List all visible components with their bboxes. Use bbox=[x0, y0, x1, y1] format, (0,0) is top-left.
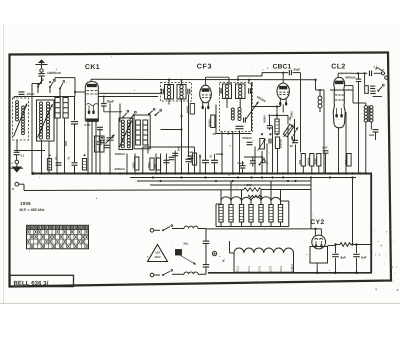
resistor lb6 bbox=[154, 158, 160, 170]
osc loop coil A bbox=[55, 98, 60, 119]
capacitor lb2 bbox=[68, 156, 78, 165]
tube CY2 bbox=[312, 235, 326, 249]
mains switch 2 bbox=[154, 269, 173, 276]
svg-text:250: 250 bbox=[298, 159, 302, 164]
svg-text:600cm: 600cm bbox=[346, 76, 356, 80]
IF2 bottom cap bbox=[236, 126, 244, 128]
svg-text:CF3: CF3 bbox=[268, 266, 272, 272]
capacitor det3 bbox=[250, 157, 256, 167]
svg-text:8uF: 8uF bbox=[341, 256, 347, 260]
dots det bbox=[261, 133, 279, 135]
svg-text:M.F. = 465 kHz: M.F. = 465 kHz bbox=[20, 208, 45, 212]
wire cbc net bbox=[253, 105, 289, 125]
IF2 winding B bbox=[236, 84, 246, 99]
capacitor CBC1 grid bbox=[289, 67, 300, 75]
wire T feed bbox=[24, 189, 244, 192]
CY2 box bbox=[310, 247, 328, 264]
switch band osc a bbox=[122, 110, 129, 118]
svg-text:CL2: CL2 bbox=[235, 266, 239, 272]
wire feed right bbox=[311, 178, 353, 245]
wire left top bbox=[14, 97, 75, 99]
trimmer arrow L1 bbox=[14, 104, 28, 137]
svg-text:30000: 30000 bbox=[264, 115, 267, 123]
wire under IF1 bbox=[161, 115, 183, 131]
wire res50000 bottom bbox=[213, 133, 216, 135]
wire det bottom bbox=[244, 156, 263, 158]
coil osc B bbox=[127, 120, 130, 148]
heater chain bbox=[216, 197, 289, 227]
potentiometer reglage bbox=[283, 116, 294, 143]
wire 25pF switch bbox=[104, 111, 122, 113]
wires vertical bbox=[17, 84, 376, 173]
label fuse bbox=[184, 242, 189, 246]
svg-text:CL2: CL2 bbox=[247, 266, 251, 272]
label CF3 bbox=[197, 64, 213, 71]
capacitor lb7 bbox=[172, 153, 178, 155]
lamp FL bbox=[212, 251, 216, 255]
svg-text:FL: FL bbox=[223, 258, 226, 262]
capacitor 0.1 a bbox=[199, 154, 209, 162]
svg-text:CL2: CL2 bbox=[331, 64, 345, 71]
svg-text:1936: 1936 bbox=[20, 201, 31, 206]
scan speckles bbox=[20, 56, 398, 291]
heater labels bbox=[235, 263, 293, 271]
capacitor lb8 bbox=[186, 159, 192, 161]
svg-text:CY2: CY2 bbox=[310, 219, 324, 226]
capacitor 0.1 b bbox=[210, 154, 219, 162]
wire grid feed bbox=[238, 73, 288, 80]
antenna terminal bbox=[40, 69, 43, 72]
bus third bbox=[137, 180, 311, 182]
heater label box bbox=[234, 253, 294, 272]
svg-text:1000cm: 1000cm bbox=[115, 152, 126, 156]
resistor speaker a bbox=[365, 86, 369, 94]
svg-text:3000: 3000 bbox=[314, 158, 318, 165]
resistor lb2 bbox=[82, 154, 86, 170]
terminal T bbox=[12, 182, 24, 191]
antenna coil box (dashed) bbox=[13, 98, 29, 140]
wire top bus mid bbox=[160, 79, 317, 81]
resistor lb1 bbox=[47, 154, 51, 170]
osc loop coil D bbox=[143, 120, 148, 145]
capacitor padding bbox=[71, 97, 78, 173]
capacitor 25pF bbox=[101, 97, 107, 112]
svg-text:80pF: 80pF bbox=[294, 67, 301, 71]
capacitor 0.1 c bbox=[238, 161, 246, 173]
resistor lb5 bbox=[148, 158, 154, 170]
IF1 shield box (dashed) bbox=[161, 83, 192, 102]
capacitor det bbox=[247, 142, 253, 144]
PU clip bbox=[374, 66, 384, 71]
capacitor osc grid bbox=[97, 127, 103, 129]
tube CK1 heaters bbox=[88, 106, 95, 115]
wire CBC1 plate bbox=[316, 89, 325, 173]
label 500cm bbox=[243, 136, 253, 140]
resistor 30000 bbox=[264, 115, 280, 134]
capacitor 8uF a bbox=[332, 245, 346, 273]
IF1 winding B bbox=[177, 85, 186, 100]
IF1 trimmer cap left bbox=[161, 89, 163, 95]
BELL title box bbox=[10, 275, 74, 287]
tube CK1 anode bar bbox=[87, 119, 99, 122]
svg-text:o.1: o.1 bbox=[374, 66, 378, 69]
block cap 0.05 bbox=[95, 136, 105, 152]
heater box feed bbox=[223, 241, 230, 262]
mains fuse coil 2 bbox=[172, 272, 206, 274]
capacitor 1uF c bbox=[188, 150, 194, 159]
switch S1b bbox=[49, 79, 55, 93]
switch speaker bbox=[377, 84, 384, 92]
mains caps bbox=[203, 229, 210, 275]
svg-text:25pF: 25pF bbox=[107, 100, 114, 104]
osc coil box bbox=[119, 118, 133, 150]
fuse box bbox=[176, 250, 197, 265]
bus fourth bbox=[150, 184, 311, 186]
heater wavy bbox=[248, 195, 262, 198]
label CY2 bbox=[310, 219, 324, 226]
osc loop coil C bbox=[136, 120, 141, 145]
svg-text:n: n bbox=[12, 187, 14, 191]
svg-text:CF3: CF3 bbox=[197, 64, 213, 71]
svg-text:8uF: 8uF bbox=[361, 256, 367, 260]
volume potentiometer bbox=[258, 139, 266, 151]
svg-text:5000: 5000 bbox=[290, 111, 294, 118]
IF2 coupling cap bbox=[244, 118, 246, 123]
terminal F bbox=[12, 160, 19, 165]
ground symbol bbox=[11, 164, 24, 173]
resistor 60000 pill bbox=[186, 104, 194, 115]
svg-text:CBC1: CBC1 bbox=[273, 64, 292, 71]
filter choke bbox=[336, 243, 371, 247]
svg-text:4uF: 4uF bbox=[322, 145, 327, 149]
capacitor det2 bbox=[269, 139, 271, 144]
switch band osc b bbox=[130, 111, 137, 119]
capacitor spk a bbox=[356, 73, 362, 173]
switch S1c bbox=[59, 81, 65, 97]
tone potentiometer bbox=[290, 111, 298, 141]
label 0.05uF bbox=[85, 123, 91, 127]
svg-text:CK1: CK1 bbox=[85, 64, 100, 71]
capacitor mixer b bbox=[104, 145, 110, 147]
resistor 350 bbox=[344, 154, 351, 167]
svg-text:500000: 500000 bbox=[278, 139, 282, 149]
PU terminal 2 bbox=[385, 76, 388, 79]
variable capacitor tuning bbox=[106, 135, 115, 144]
tube CK1 envelope bbox=[85, 82, 98, 122]
svg-text:CK1: CK1 bbox=[279, 265, 283, 271]
coil L4 bbox=[46, 102, 49, 139]
IF2 shield box (dashed) bbox=[220, 83, 253, 132]
wire 290 cont bbox=[261, 189, 311, 191]
power bus bottom (thick) bbox=[208, 272, 372, 274]
capacitor lb6 bbox=[163, 160, 169, 162]
coil L1 bbox=[16, 101, 19, 121]
tube CF3 bbox=[200, 77, 229, 109]
capacitor 30uF bbox=[290, 140, 298, 148]
capacitor mixer a bbox=[99, 137, 105, 143]
power dots bbox=[314, 228, 358, 274]
resistor 290 bbox=[244, 183, 261, 191]
svg-text:4000cm: 4000cm bbox=[115, 167, 126, 171]
wire top bus left bbox=[91, 78, 160, 80]
text MF bbox=[20, 208, 45, 212]
warning triangle bbox=[148, 245, 168, 262]
power right vertical bbox=[370, 175, 372, 273]
mains terminal 1 bbox=[150, 229, 154, 233]
junction dots bus bbox=[40, 172, 367, 182]
IF1 trimmer cap right bbox=[188, 89, 190, 95]
capacitor cbc mid bbox=[267, 115, 273, 130]
label 300 bbox=[177, 146, 180, 151]
svg-text:0.05: 0.05 bbox=[85, 123, 91, 127]
wire antenna down bbox=[41, 79, 43, 84]
tube CBC1 bbox=[277, 72, 289, 106]
switch PU bbox=[259, 158, 270, 166]
capacitor antenna 10000cm bbox=[38, 72, 45, 79]
wire CK1 right bbox=[98, 96, 158, 98]
label CBC1 bbox=[273, 64, 292, 71]
svg-text:290: 290 bbox=[247, 183, 252, 187]
wire PU bus bbox=[353, 72, 382, 74]
capacitor 8uF out bbox=[369, 130, 378, 137]
main bus (thick) bbox=[31, 172, 372, 175]
capacitor spk b bbox=[370, 91, 376, 93]
resistor 30000 r bbox=[307, 154, 314, 167]
tube CK1 pins bbox=[88, 122, 96, 129]
svg-text:10cm: 10cm bbox=[27, 92, 35, 96]
wire CK1 grid bbox=[55, 78, 85, 97]
label CK1 bbox=[85, 64, 100, 71]
label 25pF bbox=[107, 100, 114, 104]
trimmer arrow osc bbox=[120, 121, 132, 148]
coil osc A bbox=[121, 120, 124, 148]
capacitor 10cm bbox=[19, 92, 35, 96]
IF2 trimmer cap right bbox=[249, 88, 251, 94]
capacitor lb1 bbox=[55, 156, 62, 165]
svg-text:CBC1: CBC1 bbox=[290, 263, 294, 271]
label CL2 bbox=[331, 64, 345, 71]
svg-text:500: 500 bbox=[154, 164, 157, 169]
svg-text:0.1uF: 0.1uF bbox=[238, 162, 245, 165]
border frame bbox=[10, 53, 392, 287]
svg-text:50000: 50000 bbox=[208, 119, 212, 127]
tube CL2 envelope bbox=[333, 77, 345, 127]
svg-text:10000cm: 10000cm bbox=[47, 71, 61, 75]
resistor 50000 a bbox=[208, 115, 215, 128]
IF1 winding A bbox=[165, 85, 174, 100]
svg-text:30: 30 bbox=[290, 144, 294, 148]
band switch table bbox=[27, 225, 89, 249]
label 10000cm bbox=[47, 71, 61, 75]
wire CBC1 grid right bbox=[293, 73, 301, 153]
capacitor spk el bbox=[370, 86, 375, 88]
bus second bbox=[130, 177, 356, 179]
text 1936 bbox=[20, 201, 31, 206]
label 600000 bbox=[256, 95, 267, 103]
switch osc c bbox=[148, 108, 155, 115]
wire AVC bbox=[215, 132, 252, 160]
resistor lb4 bbox=[190, 153, 196, 165]
grid choke CL2 bbox=[318, 90, 322, 112]
capacitor 4uF bbox=[322, 145, 328, 153]
wire AVC down bbox=[315, 80, 317, 90]
loop coil box bbox=[134, 115, 150, 149]
label 1000cm bbox=[115, 152, 126, 156]
speaker cap series bbox=[369, 71, 371, 77]
wire spk bottom bbox=[365, 73, 382, 96]
mains terminal 2 bbox=[150, 273, 154, 277]
capacitor lb6b bbox=[169, 157, 175, 159]
wire CL2 anode bbox=[345, 86, 366, 103]
tube CL2 heaters bbox=[335, 108, 343, 118]
IF2 lower winding A bbox=[231, 108, 234, 120]
osc loop coil B bbox=[63, 98, 68, 119]
svg-text:CY2: CY2 bbox=[257, 265, 261, 271]
mains fuse coil 1 bbox=[172, 226, 206, 228]
PU terminal 1 bbox=[381, 72, 384, 75]
svg-text:3000: 3000 bbox=[148, 162, 151, 168]
IF2 trimmer cap left bbox=[220, 88, 222, 94]
svg-text:8uF: 8uF bbox=[369, 133, 374, 137]
svg-text:0.1: 0.1 bbox=[21, 154, 25, 158]
switch S1a bbox=[37, 79, 43, 93]
IF2 top stubs bbox=[248, 79, 253, 86]
capacitor left 0.1 bbox=[14, 152, 25, 157]
coil L3 bbox=[39, 102, 42, 139]
svg-text:5000: 5000 bbox=[133, 162, 136, 168]
resistor 250 bbox=[298, 154, 305, 167]
trimmer arrow IF2 bbox=[246, 102, 259, 120]
wire mains to heater bbox=[206, 228, 321, 230]
resistor lb3 bbox=[133, 157, 139, 170]
svg-text:220V: 220V bbox=[154, 256, 160, 259]
wire CK1 g2 bbox=[98, 92, 161, 94]
wire gnd bbox=[16, 155, 18, 160]
CY2 wires bbox=[315, 229, 335, 273]
svg-text:BELL 636 3/: BELL 636 3/ bbox=[14, 280, 49, 287]
wire CL2 top bbox=[338, 73, 352, 77]
svg-text:50c: 50c bbox=[184, 242, 189, 246]
switch osc d bbox=[155, 109, 162, 116]
coil L2 bbox=[22, 106, 25, 135]
tube CL2 grids bbox=[335, 90, 344, 100]
capacitor 8uF b bbox=[353, 245, 366, 273]
label 600cm bbox=[346, 76, 356, 80]
heater winding bbox=[230, 248, 294, 253]
mains switch 1 bbox=[154, 225, 173, 232]
IF1 top stubs bbox=[168, 79, 183, 85]
trimmer arrow L3 bbox=[38, 104, 53, 138]
coil box 2 bbox=[37, 100, 55, 141]
antenna bbox=[36, 59, 48, 68]
IF2 winding A bbox=[223, 84, 232, 99]
IF2 lower winding B bbox=[238, 98, 241, 120]
wires horizontal mid bbox=[14, 90, 353, 151]
svg-text:110: 110 bbox=[155, 251, 160, 255]
output transformer bbox=[364, 103, 373, 126]
svg-text:500cm: 500cm bbox=[243, 136, 253, 140]
heater stubs up bbox=[221, 182, 281, 200]
wire antenna col bbox=[32, 84, 42, 173]
tube CL2 anode bbox=[335, 81, 343, 84]
label 4000cm bbox=[115, 167, 126, 171]
svg-text:30000: 30000 bbox=[307, 157, 311, 165]
wire CK1 apex bbox=[90, 79, 92, 81]
resistor 500000 bbox=[275, 137, 282, 149]
resistor 3000 r bbox=[314, 154, 321, 167]
